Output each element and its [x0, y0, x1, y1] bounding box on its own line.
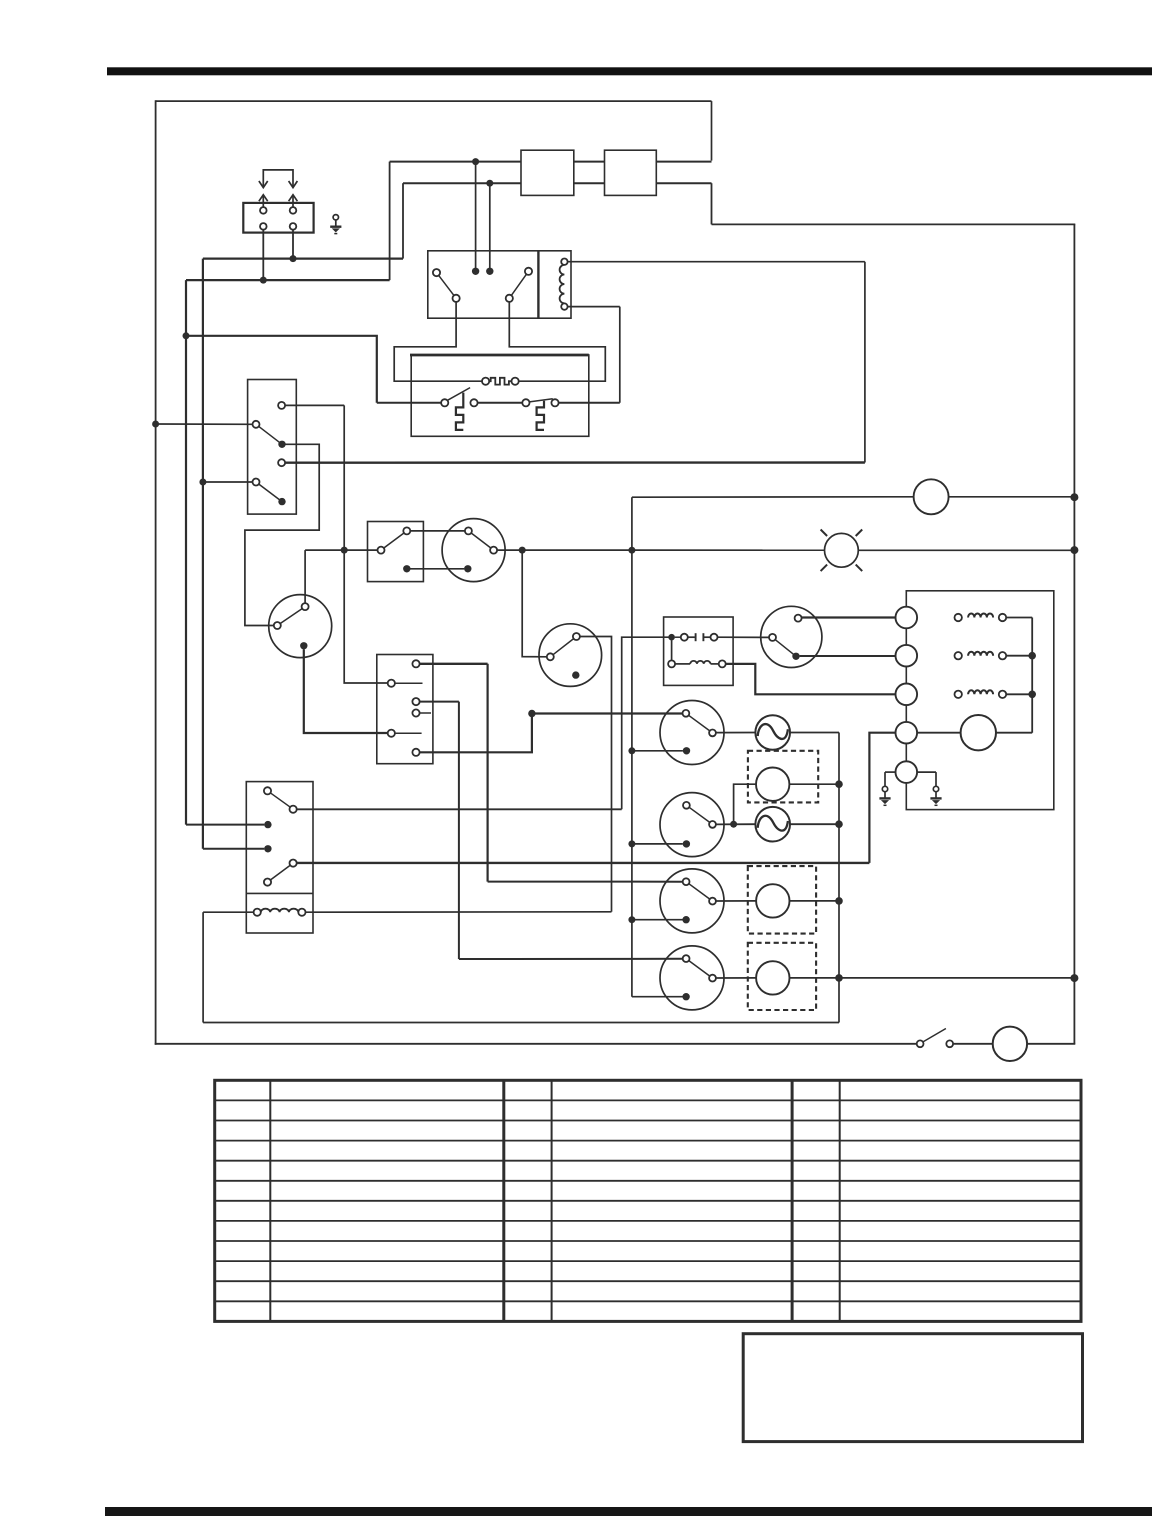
wire load rail: [838, 733, 840, 1023]
fan switch S3 terminal 3: [412, 698, 419, 705]
wire winding common: [1031, 618, 1033, 733]
wire return riser: [202, 912, 204, 1022]
wire terminal4 to relay row: [869, 733, 895, 863]
plug P1 cord bracket: [263, 170, 293, 186]
node boundary tap 1: [1070, 493, 1078, 501]
capacitor box: [664, 617, 734, 685]
fan switch S3 pole 5 arm: [395, 732, 422, 734]
wire S1 terminal C out: [285, 461, 865, 464]
relay M4 top terminal: [795, 615, 802, 622]
wire SW3 to load: [716, 900, 756, 902]
selector S1 switch 2: [256, 482, 282, 502]
legend table outer: [215, 1080, 1081, 1321]
wire outer left edge: [155, 100, 157, 1044]
wire sw row 3 feed: [488, 881, 683, 883]
wire heater feed: [186, 336, 377, 403]
wire SW1 to clock: [716, 732, 755, 734]
selector S1 switch 1: [256, 424, 282, 444]
relay K1 contact 1a throw: [453, 295, 460, 302]
node rail tap a: [628, 747, 635, 754]
wire outer right edge: [1073, 224, 1075, 1043]
node row tap 1: [519, 547, 526, 554]
K2 coil: [261, 909, 299, 912]
node cap box input: [668, 634, 675, 641]
wire M3 top out: [580, 637, 612, 912]
relay K1 contact 2a pole: [525, 268, 532, 275]
relay K1 contact 1a: [437, 273, 457, 299]
thermostat T1 pole: [441, 399, 448, 406]
lamp load LD2: [756, 884, 789, 917]
capacitor C1 plates: [695, 633, 697, 641]
switch SW1 body: [660, 701, 724, 765]
node winding join 2: [1028, 691, 1036, 699]
switch M3 left terminal: [547, 653, 554, 660]
node L1 tap: [472, 158, 479, 165]
wire tap drop to M3: [522, 550, 547, 657]
run capacitor C2: [917, 732, 961, 734]
wire pin3 drop: [262, 230, 264, 280]
switch SW2 right terminal: [709, 821, 716, 828]
switch SW1 right terminal: [709, 730, 716, 737]
wire L1 left drop: [389, 162, 391, 281]
selector switch S1 box: [248, 380, 297, 515]
thermostat T2 pole: [522, 399, 529, 406]
switch M3 top terminal: [573, 633, 580, 640]
wire SW1 low: [632, 750, 683, 752]
plug P1 left up-arrow: [259, 195, 268, 201]
motor M1 left terminal: [274, 622, 281, 629]
relay M4 moving contact: [792, 653, 799, 660]
relay M2 right terminal: [490, 547, 497, 554]
wire left vertical B: [202, 259, 204, 849]
relay M2 top terminal: [465, 527, 472, 534]
switch SW2 top terminal: [683, 802, 690, 809]
node winding join 1: [1028, 652, 1036, 660]
wire outer bottom edge: [155, 1043, 917, 1045]
top rule bar: [107, 67, 1152, 75]
K2 contact 1 arm: [268, 791, 294, 809]
defrost relay K2 divider: [246, 892, 313, 894]
capacitor C1 lead 1: [675, 636, 681, 638]
relay K1 contact 1a pole: [433, 269, 440, 276]
wire timer drop rail: [631, 497, 633, 997]
wire terminal5 left: [885, 771, 896, 773]
wire cap to coil: [671, 640, 673, 660]
fuse F1: [521, 150, 574, 195]
switch SW4 arm: [686, 959, 712, 979]
plug P1 right down-arrowhead: [289, 181, 298, 188]
fan switch S3 pole 2 arm: [395, 682, 423, 684]
defrost relay K2 box: [246, 782, 313, 933]
wire L2 to right boundary: [712, 223, 1076, 225]
winding W2: [955, 652, 962, 659]
wire c1 drop: [487, 664, 489, 882]
door switch S4 pole: [917, 1040, 924, 1047]
wire L2 lower feed: [403, 182, 712, 184]
wire M4 contact to winding 2: [800, 655, 896, 657]
switch SW2 body: [660, 793, 724, 857]
wire L2 drop: [711, 183, 713, 224]
wire SW2 low: [632, 843, 683, 845]
node load rail tap 4: [835, 974, 843, 982]
node left rail tap 2: [199, 479, 206, 486]
wire SW2 to clock 2: [716, 823, 755, 825]
clock motor A1: [755, 715, 790, 750]
aux S2 lower contact: [403, 565, 410, 572]
switch SW1 top terminal: [683, 710, 690, 717]
heater enclosure box: [411, 355, 589, 436]
switch SW2 arm: [686, 805, 712, 824]
aux S2 top terminal: [403, 527, 410, 534]
dashed enclosure DB2: [748, 866, 816, 934]
selector S1 terminal C: [278, 459, 285, 466]
wire load rail return: [203, 1022, 839, 1024]
plug P1 left down-arrowhead: [259, 181, 268, 188]
wire K1b to heater: [509, 302, 605, 381]
wire clock2 out: [790, 823, 839, 825]
wire M1 top riser: [304, 550, 306, 603]
wire S4 to lamp: [953, 1043, 993, 1045]
node start row tap: [341, 547, 348, 554]
aux switch S2 box: [368, 522, 424, 582]
wire pin4 drop: [292, 230, 294, 259]
relay M4 body: [761, 606, 822, 667]
ground left of motor: [882, 786, 887, 791]
thermostat T2 arm: [529, 399, 553, 402]
heater enclosure top edge: [410, 354, 589, 357]
wire S1 sw1 out: [245, 444, 319, 625]
inductor L1: [690, 661, 710, 664]
inductor L1 lead 2: [711, 663, 719, 665]
switch SW4 low contact: [682, 993, 689, 1000]
motor terminal 4: [896, 722, 918, 744]
wire defrost relay row: [297, 862, 870, 864]
cabinet lamp DS2: [993, 1027, 1027, 1061]
K2 coil leads: [254, 909, 261, 916]
receptacle J1 pin 1: [260, 207, 267, 214]
aux S2 arm: [381, 531, 407, 550]
switch SW4 top terminal: [683, 955, 690, 962]
ground right of motor: [933, 786, 938, 791]
wire LD3 row to boundary: [839, 977, 1075, 979]
node pin3 junction: [260, 277, 267, 284]
wire left vertical A: [185, 280, 187, 825]
node pin4 junction: [290, 255, 297, 262]
wire LD2 out: [790, 900, 840, 902]
legend table row lines: [216, 1099, 1081, 1101]
node left rail tap: [152, 421, 159, 428]
wire S3 c1 out: [420, 663, 488, 665]
switch M3 body: [539, 624, 602, 687]
dashed enclosure DB1: [748, 751, 818, 803]
dashed enclosure DB3: [748, 943, 816, 1010]
fan switch S3 pole 5: [388, 730, 395, 737]
fuse F2: [605, 150, 657, 195]
receptacle J1 pin 2: [290, 207, 297, 214]
wire relay coil row: [306, 911, 612, 913]
switch M3 arm: [550, 637, 576, 657]
K2 contact 2 arm: [268, 863, 294, 882]
aux S2 pole: [378, 547, 385, 554]
wire lamp DS2 to boundary: [1027, 1043, 1075, 1045]
inductor L1 lead: [668, 660, 675, 667]
switch SW1 arm: [686, 713, 713, 733]
wire indicator row: [497, 549, 824, 551]
wire xfmr feed riser: [622, 637, 669, 809]
relay M2 body: [442, 519, 505, 582]
switch SW4 body: [660, 946, 724, 1010]
relay K1 contact 2a throw: [506, 295, 513, 302]
thermostat T2 throw: [551, 399, 558, 406]
wire LD3 out: [790, 977, 840, 979]
node load rail tap 2: [835, 820, 843, 828]
legend table column lines: [269, 1080, 271, 1321]
node sw row 1 corner: [528, 710, 535, 717]
relay K1 box: [428, 251, 571, 318]
wire to S1 pole 2: [203, 481, 253, 483]
K2 contact 2 pole: [264, 879, 271, 886]
wire S3 c6 out: [420, 717, 532, 752]
plug P1 right up-arrow: [289, 195, 298, 201]
node K2 in 2: [264, 845, 271, 852]
K2 contact 1 pole: [264, 787, 271, 794]
wire K2 in 2: [203, 848, 264, 850]
wire T1 to T2: [478, 402, 523, 404]
lamp DS1 rays: [821, 530, 828, 537]
fan switch S3 terminal 4 stub: [420, 712, 431, 714]
lamp DS1: [825, 533, 859, 567]
node clock2 tap: [730, 821, 737, 828]
node boundary tap 2: [1070, 546, 1078, 554]
motor terminal 2: [896, 645, 918, 667]
node boundary tap 3: [1070, 974, 1078, 982]
wire H bus: [186, 279, 390, 281]
node load rail tap 1: [835, 780, 843, 788]
heater element HTR: [482, 378, 489, 385]
wire K2 coil left: [203, 911, 254, 913]
wire coil bottom drop: [619, 307, 621, 403]
fan switch S3 pole 2: [388, 680, 395, 687]
node heater feed tap: [183, 332, 190, 339]
wire L1 tap drop to relay: [475, 162, 477, 272]
switch SW3 top terminal: [683, 878, 690, 885]
node rail tap b: [628, 840, 635, 847]
node L2 tap: [486, 180, 493, 187]
wire xfmr feed: [297, 808, 622, 810]
wire c3 drop: [458, 702, 460, 959]
relay M2 arm: [468, 531, 493, 550]
ground near plug: [333, 215, 338, 220]
wire fan feed drop: [344, 405, 388, 683]
door switch S4 throw: [946, 1040, 953, 1047]
node load rail tap 3: [835, 897, 843, 905]
capacitor C1 lead 2: [703, 636, 710, 638]
winding W3: [955, 691, 962, 698]
motor M1 switch arm: [277, 607, 305, 626]
fan switch S3 box: [377, 655, 433, 764]
wire SW3 low: [632, 919, 683, 921]
motor terminal 1: [896, 607, 918, 629]
receptacle J1 box: [243, 203, 313, 233]
lamp load LD3: [756, 961, 789, 994]
lamp load LD1: [756, 768, 789, 801]
switch SW3 low contact: [682, 916, 689, 923]
switch SW3 body: [660, 869, 724, 933]
wire timer to boundary: [949, 496, 1076, 498]
wire K1a to heater: [394, 302, 482, 381]
node row tap 2: [628, 547, 635, 554]
wire lamp to boundary: [858, 549, 1075, 551]
fan switch S3 terminal 4: [412, 709, 419, 716]
switch SW1 low contact: [683, 747, 690, 754]
fan switch S3 terminal 6: [412, 749, 419, 756]
wire sw row 4 feed: [459, 958, 683, 960]
wire M1 bottom drop: [304, 649, 388, 733]
fan motor box: [906, 591, 1054, 810]
switch M3 unused contact: [572, 671, 579, 678]
notice box: [743, 1334, 1082, 1442]
wire T2 out: [559, 402, 620, 404]
wire outer top edge: [156, 100, 712, 102]
wire L1 corner to top edge: [711, 101, 713, 161]
motor M1 unused contact: [300, 642, 307, 649]
timer motor B1: [914, 479, 949, 514]
wire thermostat row in: [377, 402, 441, 404]
wire clock out: [790, 732, 839, 734]
node relay K1 in 2: [486, 268, 493, 275]
wire SW4 low: [632, 996, 683, 998]
wire inductor out: [726, 664, 896, 694]
switch SW3 arm: [686, 882, 712, 901]
wire K2 in 1: [186, 824, 264, 826]
K2 contact 2 throw: [290, 860, 297, 867]
clock motor A2: [755, 807, 790, 842]
node rail tap c: [628, 916, 635, 923]
node relay K1 in 1: [472, 268, 479, 275]
node K2 in 1: [264, 821, 271, 828]
relay M4 left terminal: [769, 634, 776, 641]
bottom rule bar: [105, 1507, 1152, 1516]
motor terminal 5: [896, 761, 918, 783]
thermostat T1 sensor: [456, 393, 463, 430]
wire coil top to riser: [568, 261, 865, 263]
wire sw row 1 feed: [532, 712, 683, 714]
receptacle J1 pin 4: [290, 223, 297, 230]
wire N bus: [203, 258, 403, 260]
switch SW4 right terminal: [709, 975, 716, 982]
wire timer row: [632, 496, 914, 498]
relay K1 separator: [537, 251, 539, 318]
wire S3 c3 out: [420, 701, 459, 703]
relay K1 contact 2a: [509, 271, 528, 298]
door switch S4 arm: [923, 1029, 946, 1042]
winding W1: [955, 614, 962, 621]
wire start row: [305, 549, 377, 551]
motor M1 body: [269, 595, 332, 658]
wire L2 left drop: [402, 183, 404, 258]
wire S1 terminal A out: [285, 404, 344, 406]
wire terminal5 right: [917, 771, 936, 773]
wire LD1 right: [789, 783, 839, 785]
selector S1 terminal A: [278, 402, 285, 409]
thermostat T1 arm: [446, 388, 470, 402]
thermostat T2 sensor: [537, 401, 544, 430]
thermostat T1 throw: [470, 399, 477, 406]
wire L2 tap drop to relay: [489, 183, 491, 271]
switch SW2 low contact: [683, 840, 690, 847]
wire to S1 pole 1: [156, 423, 253, 425]
receptacle J1 pin 3: [260, 223, 267, 230]
wire M4 top to winding 1: [802, 616, 896, 618]
wire LD1 left: [734, 784, 756, 824]
relay M2 lower contact: [464, 565, 471, 572]
wire L1 upper feed: [390, 161, 712, 163]
wire coil bottom: [568, 306, 620, 308]
K2 contact 1 throw: [290, 806, 297, 813]
switch SW3 right terminal: [709, 898, 716, 905]
motor M1 top terminal: [302, 603, 309, 610]
fan switch S3 terminal 1: [412, 660, 419, 667]
wire riser right: [864, 262, 866, 463]
relay M4 arm: [773, 637, 797, 656]
wire S2 low to M2: [407, 568, 465, 570]
wire S2 top to M2: [410, 530, 465, 532]
motor terminal 3: [896, 684, 918, 706]
relay K1 coil: [561, 259, 567, 265]
wire SW4 to load: [716, 977, 756, 979]
